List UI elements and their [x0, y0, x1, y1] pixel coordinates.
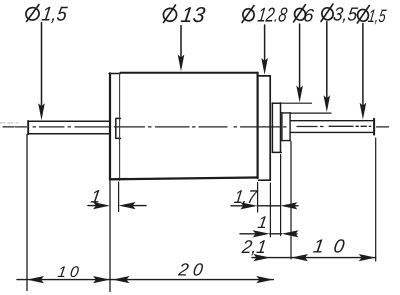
leader arrow phi 6	[299, 24, 301, 89]
extension line ring right face x291	[290, 142, 292, 260]
svg-text:10: 10	[312, 237, 346, 258]
extension line right shaft end x375.7	[375, 138, 377, 261]
left shaft phi 1.5	[28, 121, 110, 134]
svg-text:1,5: 1,5	[367, 6, 388, 26]
leader arrow phi 13	[180, 26, 182, 59]
label phi 12.8	[242, 5, 289, 27]
label phi 6	[293, 5, 316, 26]
extension line flange right face x270.4	[269, 183, 271, 237]
phi 6 leader extension line	[281, 102, 311, 104]
svg-text:10: 10	[56, 264, 80, 281]
dimension 1.7 (flange)	[231, 205, 298, 207]
svg-text:1,5: 1,5	[40, 4, 69, 26]
extension line cap inner x118.6	[118, 182, 120, 212]
svg-text:12.8: 12.8	[256, 5, 289, 27]
motor body phi 13	[109, 73, 257, 181]
phi 3.5 leader extension line	[291, 112, 331, 114]
extension line body right face x257.6	[257, 183, 259, 213]
dimension 2,1 and 10 right	[252, 257, 376, 259]
svg-text:1: 1	[256, 213, 268, 232]
extension line disc right face x280.6	[280, 155, 282, 236]
leader arrow phi 1,5 right	[362, 24, 364, 107]
shaft boss at body left face	[116, 118, 121, 138]
extension line left shaft end x27	[26, 135, 28, 291]
svg-text:1.7: 1.7	[233, 186, 259, 207]
svg-text:20: 20	[176, 260, 204, 280]
svg-text:13: 13	[179, 2, 206, 27]
label phi 3,5	[321, 4, 359, 25]
svg-text:3,5: 3,5	[332, 5, 359, 26]
dimension 1 (left cap)	[88, 205, 146, 207]
label phi 13	[162, 2, 207, 27]
extension line body left face x110	[109, 181, 111, 292]
centerline	[3, 125, 389, 128]
ring phi 3.5	[282, 113, 290, 141]
scan smudge left edge	[0, 122, 18, 124]
leader arrow phi 3,5	[326, 22, 328, 100]
svg-text:6: 6	[302, 6, 316, 26]
svg-text:1: 1	[89, 187, 102, 207]
disc phi 6	[272, 103, 281, 152]
svg-text:2,1: 2,1	[240, 236, 268, 257]
right shaft phi 1.5	[290, 119, 374, 135]
label phi 1,5 right	[356, 6, 388, 26]
dimension 1 (disc)	[240, 233, 297, 235]
dimension 10 left and 20	[17, 279, 273, 281]
leader arrow phi 1,5 left	[41, 23, 43, 108]
leader arrow phi 12.8	[264, 25, 266, 62]
label phi 1,5 left	[25, 4, 70, 26]
flange phi 12.8	[259, 76, 271, 180]
